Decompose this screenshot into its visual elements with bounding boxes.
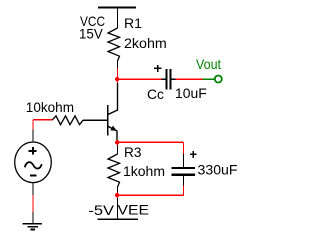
wire base (black)	[83, 119, 108, 121]
wire VEE stem	[117, 198, 119, 219]
svg-text:Vout: Vout	[196, 56, 221, 72]
wire source top lead	[32, 129, 34, 142]
node C junction dot	[115, 193, 119, 197]
svg-text:330uF: 330uF	[198, 161, 238, 177]
VEE rail	[98, 218, 139, 220]
wire input (red) horizontal	[33, 119, 52, 121]
VCC rail	[98, 7, 136, 9]
svg-text:-5V: -5V	[88, 202, 114, 218]
wire Cc to output (red)	[175, 78, 202, 80]
svg-text:2kohm: 2kohm	[124, 35, 167, 51]
source minus sign	[30, 174, 37, 176]
svg-text:10uF: 10uF	[175, 85, 207, 101]
resistor Rin 10kohm zigzag	[52, 116, 83, 125]
resistor R1	[108, 28, 120, 61]
node A junction dot	[115, 77, 119, 81]
transistor Q1 base bar	[107, 105, 109, 136]
transistor Q1 emitter arrow	[110, 126, 116, 131]
wire input (red) vertical	[32, 120, 34, 130]
plus sign of Cl	[190, 151, 197, 158]
wire node C to cap bottom (red)	[118, 194, 184, 196]
wire node A vertical (red)	[117, 69, 119, 84]
wire R1 bottom lead	[117, 61, 119, 69]
wire node B to cap (red)	[118, 141, 184, 143]
node Vout terminal	[215, 76, 222, 83]
transistor Q1 collector lead	[108, 83, 118, 115]
capacitor Cc left lead	[162, 78, 166, 80]
svg-text:R1: R1	[124, 15, 142, 31]
source plus sign	[29, 147, 37, 155]
capacitor Cl top lead	[183, 154, 185, 167]
wire cap branch vertical top (red)	[183, 142, 185, 154]
wire R3 top lead	[117, 145, 119, 154]
wire VCC stem	[117, 8, 119, 29]
svg-text:15V: 15V	[79, 26, 103, 42]
wire cap branch vertical bottom (red)	[183, 186, 185, 196]
transistor Q1 emitter	[108, 126, 117, 140]
svg-text:Cc: Cc	[147, 86, 164, 102]
capacitor Cc right lead	[172, 78, 176, 80]
wire source bottom lead	[32, 183, 34, 196]
ground symbol	[22, 224, 42, 230]
source sine wave	[25, 162, 42, 168]
plus sign of Cc	[154, 65, 161, 72]
source V1 circle	[15, 142, 52, 183]
wire output stub (green)	[203, 78, 215, 80]
node B junction dot	[115, 140, 119, 144]
wire source to ground (red)	[32, 195, 34, 212]
svg-text:10kohm: 10kohm	[26, 99, 74, 115]
svg-text:1kohm: 1kohm	[123, 163, 165, 179]
capacitor Cl 330uF plates	[172, 167, 196, 176]
wire node A to Cc (red)	[118, 78, 162, 80]
wire emitter node (red)	[117, 140, 119, 145]
wire R3 bottom lead	[117, 187, 119, 193]
capacitor Cc plates	[166, 69, 172, 90]
resistor R3	[108, 154, 120, 187]
capacitor Cl bottom lead	[183, 176, 185, 186]
wire node C (red)	[117, 193, 119, 199]
wire ground stem	[32, 212, 34, 224]
svg-text:R3: R3	[124, 144, 142, 160]
svg-text:VEE: VEE	[118, 201, 150, 217]
